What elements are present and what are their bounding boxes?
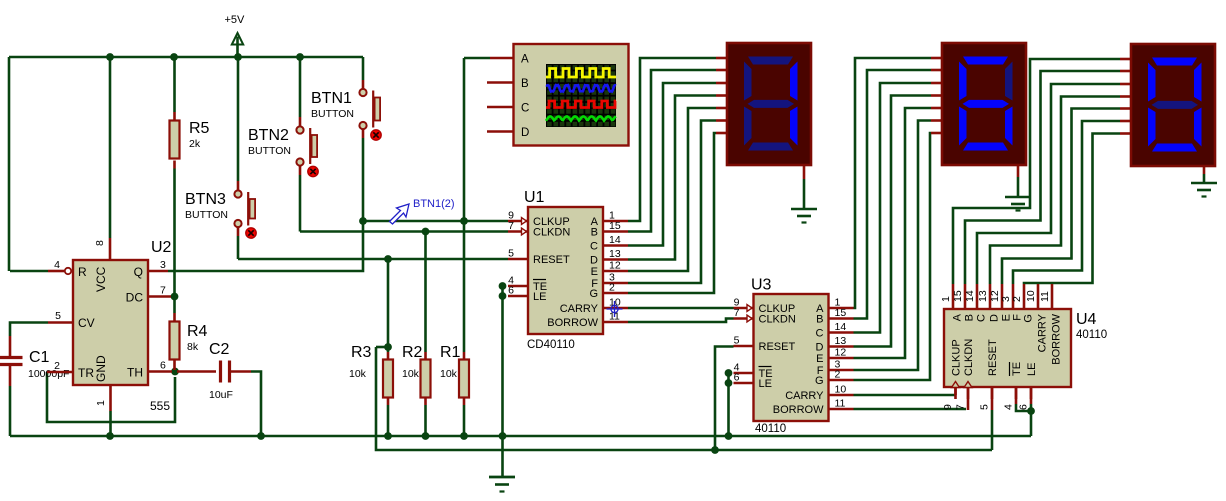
oscilloscope screen [546, 64, 616, 127]
svg-text:G: G [815, 375, 824, 387]
ground main bottom [489, 477, 515, 492]
svg-text:BTN3: BTN3 [185, 191, 226, 208]
svg-text:D: D [521, 127, 529, 139]
svg-text:BUTTON: BUTTON [311, 108, 354, 120]
junction top bus / BTN2 [296, 53, 304, 61]
wire CLKUP line [363, 220, 508, 223]
svg-text:+5V: +5V [225, 14, 246, 26]
junction U4 TE LE [1027, 407, 1035, 415]
svg-text:D: D [989, 314, 1001, 322]
wire R5 top to +5V bus [173, 57, 176, 121]
wire U3 CARRY to U4 CLKUP [854, 387, 956, 395]
svg-text:CARRY: CARRY [560, 303, 599, 315]
junction R3 / RESET net tee [384, 343, 392, 351]
wire R4 bottom to TH node [173, 360, 176, 371]
junction ground bus / R3 [384, 432, 392, 440]
svg-text:Q: Q [134, 265, 143, 279]
power +5V symbol [225, 14, 246, 57]
svg-text:14: 14 [835, 321, 847, 333]
svg-text:11: 11 [1039, 291, 1051, 302]
junction U2 DC / R4 [171, 293, 179, 301]
wire TH node to C2 [177, 370, 216, 373]
svg-text:B: B [521, 78, 529, 90]
svg-text:CARRY: CARRY [785, 390, 824, 402]
svg-text:10: 10 [1025, 290, 1037, 302]
timer U2 555 [10, 239, 172, 413]
junction ground bus / R2 [422, 432, 430, 440]
svg-text:TR: TR [78, 366, 94, 380]
svg-text:TE: TE [1011, 362, 1023, 376]
svg-text:BTN2: BTN2 [248, 127, 289, 144]
wire U1 CARRY to U3 CLKUP [628, 307, 734, 310]
svg-text:8k: 8k [187, 341, 199, 353]
wire U2 VCC riser [109, 57, 112, 260]
wire U4 outputs A-G to display DS3 [953, 59, 1131, 284]
svg-text:5: 5 [979, 404, 991, 410]
wire U4 RESET to RESET net [991, 387, 994, 450]
svg-text:4: 4 [54, 259, 60, 271]
wire U3 RESET branch [715, 347, 734, 451]
wire R1 to ground bus [463, 398, 466, 437]
svg-text:C: C [590, 241, 598, 253]
svg-text:40110: 40110 [755, 423, 786, 435]
wire RESET net bottom line [376, 347, 992, 450]
svg-text:RESET: RESET [987, 339, 999, 376]
svg-text:LE: LE [1026, 363, 1038, 376]
svg-text:2: 2 [54, 360, 60, 372]
svg-text:LE: LE [759, 378, 772, 390]
junction ground bus / U2 GND [106, 432, 114, 440]
svg-text:G: G [1023, 314, 1035, 323]
wire R5 bottom to U2 DC [173, 161, 176, 322]
junction U3 TE [725, 369, 733, 377]
wire U4 LE to ground bus [1030, 387, 1033, 436]
svg-text:CV: CV [78, 316, 95, 330]
resistor R2 [402, 344, 431, 398]
svg-text:E: E [591, 266, 598, 278]
wire display DS3 ground lead [1203, 166, 1206, 183]
svg-text:10: 10 [835, 384, 847, 396]
wire R3 riser [387, 259, 390, 360]
capacitor C1 [0, 349, 69, 380]
origin marker U1 pin 10 [607, 301, 623, 317]
svg-text:BTN1(2): BTN1(2) [413, 198, 455, 210]
junction top bus / R5 [170, 53, 178, 61]
wire U4 TE to LE tie [1016, 387, 1031, 411]
junction ground bus / R1 [460, 432, 468, 440]
svg-text:U1: U1 [524, 189, 545, 206]
wire R3 tee to RESET net [376, 346, 388, 349]
junction U1 TE [499, 282, 507, 290]
wire U3 BORROW to U4 CLKDN [854, 387, 969, 410]
wire U1 TE LE to ground [501, 286, 504, 477]
7-segment display DS3 [1131, 44, 1215, 166]
svg-text:LE: LE [533, 291, 546, 303]
svg-text:2k: 2k [189, 138, 201, 150]
junction top bus / +5V / BTN3 [234, 53, 242, 61]
svg-text:5: 5 [734, 335, 740, 347]
waveform channel B blue [546, 85, 616, 91]
wire BTN2 to CLKDN line [299, 166, 302, 232]
svg-text:BUTTON: BUTTON [248, 145, 291, 157]
svg-text:BTN1: BTN1 [311, 90, 352, 107]
svg-text:C: C [521, 103, 529, 115]
push button BTN2 [248, 126, 318, 176]
counter U3 CD40110 [734, 277, 854, 436]
svg-text:10k: 10k [402, 368, 420, 380]
junction U3 LE [725, 379, 733, 387]
svg-text:2: 2 [1011, 296, 1023, 302]
wire CLKDN line [300, 230, 508, 233]
wire display DS1 ground lead [803, 165, 806, 209]
svg-text:C1: C1 [29, 349, 50, 366]
svg-text:15: 15 [835, 307, 847, 319]
wire display DS2 ground lead [1017, 165, 1020, 197]
svg-text:D: D [590, 255, 598, 267]
resistor R5 [170, 120, 210, 159]
wire U3 TE LE to ground bus [727, 373, 730, 436]
svg-text:4: 4 [1003, 404, 1015, 410]
svg-text:BORROW: BORROW [773, 404, 824, 416]
svg-text:DC: DC [126, 291, 144, 305]
wire R1 riser / scope A riser [464, 58, 490, 360]
wire BTN1 to CLKUP line [362, 128, 365, 221]
wire U2 Q output to CLKUP node [168, 221, 363, 271]
svg-text:15: 15 [609, 220, 621, 232]
svg-text:7: 7 [734, 307, 740, 319]
svg-text:13: 13 [977, 290, 989, 302]
svg-text:A: A [521, 54, 529, 66]
svg-text:10uF: 10uF [209, 389, 233, 401]
junction ground bus / U3 riser [725, 432, 733, 440]
wire RESET line [238, 258, 508, 261]
svg-text:14: 14 [964, 290, 976, 302]
svg-text:40110: 40110 [1076, 329, 1107, 341]
svg-text:U2: U2 [151, 239, 172, 256]
svg-text:CD40110: CD40110 [527, 339, 575, 351]
junction RESET / R3 [384, 255, 392, 263]
svg-text:B: B [964, 314, 976, 321]
waveform channel A yellow [546, 69, 616, 78]
svg-text:555: 555 [150, 399, 170, 413]
svg-text:11: 11 [835, 398, 846, 410]
svg-text:CLKUP: CLKUP [951, 339, 963, 376]
svg-text:R: R [78, 265, 87, 279]
wire U2 CV to C1 [10, 323, 48, 357]
svg-text:R2: R2 [402, 344, 423, 361]
junction ground bus / U1 TE LE riser [499, 432, 507, 440]
push button BTN3 [185, 190, 256, 238]
net label BTN1(2) with cursor arrow [390, 198, 455, 224]
svg-text:BORROW: BORROW [547, 317, 598, 329]
waveform channel C red [546, 101, 616, 108]
svg-text:RESET: RESET [759, 341, 796, 353]
svg-text:2: 2 [835, 369, 841, 381]
svg-text:C2: C2 [209, 341, 230, 358]
svg-text:2: 2 [609, 282, 615, 294]
svg-text:CARRY: CARRY [1037, 313, 1049, 352]
svg-text:R3: R3 [351, 344, 372, 361]
oscilloscope 4-channel block [487, 44, 629, 146]
svg-text:7: 7 [160, 285, 166, 297]
svg-text:8: 8 [94, 240, 106, 246]
junction U1 LE [499, 292, 507, 300]
svg-text:GND: GND [94, 355, 108, 382]
wire U3 outputs A-G to display DS2 [854, 58, 943, 380]
junction CLKDN / R2 [422, 228, 430, 236]
svg-text:B: B [816, 314, 823, 326]
svg-text:D: D [816, 342, 824, 354]
wire BTN1 to top bus [362, 57, 365, 89]
ground display DS2 [1005, 197, 1031, 211]
7-segment display DS1 [727, 43, 811, 165]
svg-text:A: A [952, 313, 964, 321]
svg-text:U4: U4 [1076, 311, 1097, 328]
wire R3 to ground bus [387, 398, 390, 437]
svg-text:6: 6 [734, 372, 740, 384]
junction CLKUP / BTN1 / Q [359, 217, 367, 225]
svg-text:C: C [976, 314, 988, 322]
svg-text:VCC: VCC [94, 266, 108, 292]
svg-text:12: 12 [609, 260, 621, 272]
svg-text:U3: U3 [751, 277, 772, 294]
svg-text:CLKDN: CLKDN [759, 314, 796, 326]
svg-text:9: 9 [942, 404, 954, 410]
resistor R3 [349, 344, 393, 398]
svg-text:6: 6 [508, 285, 514, 297]
svg-text:14: 14 [609, 234, 621, 246]
resistor R4 [170, 322, 208, 360]
junction U2 TH / R4 / C2 [171, 368, 179, 376]
wire R2 to ground bus [424, 398, 427, 437]
wire U2 GND drop [109, 385, 112, 436]
svg-text:R4: R4 [187, 323, 208, 340]
svg-text:13: 13 [609, 248, 621, 260]
svg-text:G: G [589, 288, 598, 300]
push button BTN1 [311, 89, 381, 140]
wire U1 outputs A-G to display DS1 [628, 58, 727, 293]
svg-text:RESET: RESET [533, 254, 570, 266]
wire U1 BORROW to U3 CLKDN [628, 319, 734, 323]
junction ground bus / C2 [257, 432, 265, 440]
wire BTN3 to top bus [237, 57, 240, 190]
capacitor C2 [209, 341, 233, 401]
svg-text:5: 5 [55, 310, 61, 322]
svg-text:E: E [816, 353, 823, 365]
svg-text:CLKDN: CLKDN [533, 227, 570, 239]
svg-text:CLKDN: CLKDN [963, 339, 975, 376]
junction CLKUP / R1 / scope A [460, 217, 468, 225]
svg-text:10000pF: 10000pF [28, 368, 69, 380]
svg-text:15: 15 [952, 290, 964, 302]
svg-text:10k: 10k [440, 368, 458, 380]
wire ground bottom bus [10, 435, 1031, 438]
junction RESET net / U3 RESET [711, 446, 719, 454]
ground display DS3 [1191, 183, 1217, 197]
svg-text:5: 5 [508, 248, 514, 260]
wire C1 to ground bus [9, 366, 12, 436]
svg-text:6: 6 [1018, 404, 1030, 410]
svg-text:TH: TH [127, 366, 143, 380]
svg-text:13: 13 [835, 335, 847, 347]
svg-text:3: 3 [160, 259, 166, 271]
svg-text:BORROW: BORROW [1051, 313, 1063, 364]
counter U4 40110 rotated [940, 284, 1107, 410]
wire BTN3 to RESET line [237, 227, 240, 259]
svg-text:7: 7 [508, 220, 514, 232]
ground display DS1 [791, 209, 817, 223]
svg-text:R5: R5 [189, 120, 210, 137]
wire U2 TR loop to TH [47, 372, 175, 422]
svg-text:1: 1 [95, 400, 107, 406]
svg-text:R1: R1 [440, 344, 461, 361]
wire +5V left drop to U2 pin R [8, 57, 11, 271]
waveform channel D green [546, 116, 616, 120]
wire +5V top bus [9, 56, 363, 59]
junction top bus / U2 VCC [106, 53, 114, 61]
svg-text:10k: 10k [349, 368, 367, 380]
resistor R1 [440, 344, 469, 398]
svg-text:1: 1 [940, 296, 952, 302]
svg-text:B: B [591, 227, 598, 239]
svg-text:7: 7 [955, 404, 967, 410]
svg-text:6: 6 [160, 360, 166, 372]
wire C2 to ground bus [231, 372, 261, 437]
svg-text:C: C [816, 328, 824, 340]
counter U1 CD40110 [508, 189, 628, 351]
svg-text:12: 12 [835, 347, 847, 359]
7-segment display DS2 [942, 43, 1026, 165]
wire BTN2 to top bus [299, 57, 302, 126]
svg-text:BUTTON: BUTTON [185, 209, 228, 221]
wire R2 riser [424, 232, 427, 360]
